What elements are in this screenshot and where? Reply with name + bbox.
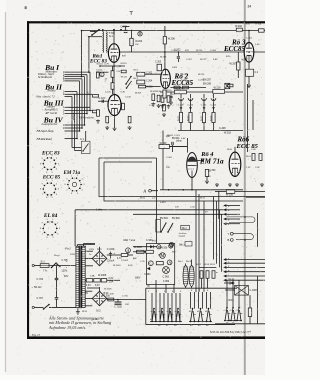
- electrolytic cup C.210: [188, 98, 193, 101]
- resistor column C.211: [203, 94, 205, 98]
- resistor W.964: [137, 250, 145, 253]
- wire top horizontal y52: [120, 51, 265, 53]
- svg-text:W.202: W.202: [235, 25, 243, 28]
- wire grid Ro2: [145, 73, 161, 75]
- resistor right lower: [248, 308, 251, 317]
- svg-text:W.215: W.215: [178, 116, 180, 121]
- svg-text:J: J: [90, 244, 91, 246]
- capacitor C.304 boxed: [137, 80, 145, 84]
- page gutter gray line: [244, 0, 246, 375]
- svg-text:C.208: C.208: [219, 127, 226, 130]
- vertical right x257.5 lower: [257, 276, 259, 324]
- cable loop 1: [227, 217, 256, 223]
- wire Ro4 bottom: [191, 178, 193, 190]
- svg-text:C.95: C.95: [140, 261, 145, 263]
- ground under W.106: [105, 126, 109, 130]
- frame border top: [27, 21, 265, 23]
- diode arrow col 3: [203, 107, 206, 110]
- mains lower switch: [44, 305, 50, 310]
- svg-text:A: A: [167, 260, 171, 265]
- margin speckle noise: [9, 0, 263, 374]
- svg-text:C.30: C.30: [149, 105, 154, 107]
- switch bank 2: [189, 308, 196, 322]
- svg-text:C.1: C.1: [80, 137, 85, 141]
- schematic interior tint: [29, 23, 265, 336]
- svg-text:1,9A: 1,9A: [109, 280, 114, 283]
- svg-text:24V: 24V: [166, 167, 170, 169]
- wire vertical x156.5: [156, 158, 158, 244]
- switch box outline left: [145, 288, 147, 324]
- wire Ro1 grid left: [96, 71, 108, 73]
- wire Ro6 top: [234, 147, 236, 152]
- svg-text:Ptr.I: Ptr.I: [64, 247, 71, 251]
- switch contact BV.1: [126, 77, 131, 85]
- resistor column C.210: [190, 94, 192, 98]
- lower bus wire 4: [223, 270, 226, 273]
- switch lever 2: [168, 223, 173, 232]
- switch bank 3: [224, 307, 231, 321]
- svg-text:W.111: W.111: [121, 77, 128, 79]
- wire bottom right y323.8: [215, 323, 265, 325]
- svg-text:BV.503: BV.503: [160, 217, 168, 220]
- svg-text:A: A: [143, 190, 147, 194]
- svg-text:120mA: 120mA: [107, 260, 115, 263]
- svg-text:W.30: W.30: [156, 91, 162, 93]
- wire Bu II pin1 to bus: [68, 91, 77, 93]
- resistor W.204: [130, 38, 133, 45]
- bus wire vertical x74.5 long: [74, 94, 76, 150]
- resistor W.207: [237, 62, 240, 70]
- tube Ro4 EM71: [187, 153, 198, 178]
- wire primary bottom: [77, 308, 79, 310]
- svg-text:W.1004: W.1004: [134, 247, 143, 249]
- svg-text:12V: 12V: [175, 207, 179, 209]
- page left edge line: [5, 12, 7, 372]
- svg-text:m: m: [216, 272, 218, 274]
- verticals above banks: [151, 293, 153, 321]
- heater resistor chain 3: [101, 279, 107, 282]
- wire bridge1 right: [107, 254, 121, 256]
- diode arrow col 1: [180, 107, 183, 110]
- bus wire vertical x77: [76, 92, 78, 139]
- node B circled: [169, 242, 173, 247]
- svg-text:NF-Verstärker: NF-Verstärker: [78, 117, 95, 120]
- resistor W.211: [174, 86, 180, 89]
- svg-text:b2: b2: [197, 311, 199, 313]
- tube socket ECC 85: [40, 180, 60, 199]
- svg-text:FB-Start-Stop: FB-Start-Stop: [36, 129, 54, 133]
- svg-text:20V: 20V: [64, 275, 69, 278]
- capacitor C.707: [55, 298, 59, 299]
- svg-text:62V: 62V: [185, 50, 189, 52]
- resistor right edge: [259, 154, 262, 161]
- boxed EM-element: [225, 83, 230, 88]
- svg-text:Gl.2: Gl.2: [96, 309, 101, 313]
- node C circled: [100, 72, 104, 77]
- wire vertical x81.5 from top: [81, 31, 83, 77]
- connector Bu IV pins: [65, 124, 69, 126]
- wire y66 to W.102: [112, 66, 114, 71]
- svg-text:C.50: C.50: [190, 207, 195, 209]
- svg-text:C.201: C.201: [246, 38, 253, 40]
- diode at Ro4: [201, 159, 204, 162]
- resistor W.305: [152, 94, 155, 101]
- lower bus wire 1: [223, 258, 226, 261]
- svg-text:6,3V: 6,3V: [95, 285, 100, 287]
- wire FB-Ruecklauf: [68, 138, 77, 140]
- wire C.101: [98, 100, 108, 102]
- svg-text:1,6V: 1,6V: [255, 44, 260, 46]
- resistor W.708: [108, 298, 114, 301]
- svg-text:W.105: W.105: [226, 194, 234, 197]
- switch C.1: [81, 141, 90, 153]
- relay contact box right: [235, 286, 249, 296]
- component at right edge: [259, 29, 265, 32]
- wire Gl2x: [224, 282, 235, 284]
- wire Bu I pin4 to bus: [68, 78, 82, 80]
- resistor W.306: [157, 95, 160, 102]
- box Mo II at mid right: [156, 220, 161, 233]
- wire bridge2 top: [99, 287, 101, 291]
- relay coil 1: [183, 266, 188, 287]
- svg-text:Mo.I: Mo.I: [182, 227, 187, 230]
- svg-text:EM.208: EM.208: [203, 84, 212, 86]
- wires relay coils: [185, 263, 187, 265]
- svg-text:Rel.II: Rel.II: [186, 261, 191, 263]
- resistor W.202: [236, 28, 242, 31]
- resistor W.108: [128, 116, 131, 123]
- wire W.207: [237, 52, 239, 62]
- motor circle X: [163, 267, 170, 274]
- bus wire y189.8: [160, 189, 243, 191]
- svg-text:0,6V: 0,6V: [181, 138, 186, 140]
- capacitor C.101: [102, 100, 103, 103]
- fuse Si.1: [40, 264, 49, 268]
- connector Bu I pins: [65, 71, 69, 73]
- wire Ro2 anode right: [170, 87, 206, 89]
- node B circled in box 2: [169, 244, 173, 248]
- resistor W.503: [159, 145, 169, 149]
- wire y251.8: [133, 251, 146, 253]
- svg-text:W.223: W.223: [198, 74, 205, 76]
- bus wire vertical x82: [81, 79, 83, 128]
- svg-text:W.217: W.217: [201, 116, 203, 121]
- lower bus wire 3: [223, 266, 226, 269]
- svg-text:C.204: C.204: [210, 50, 217, 52]
- resistor W.106: [106, 116, 109, 123]
- capacitor C.303: [157, 64, 162, 71]
- svg-text:W.1005: W.1005: [98, 274, 107, 277]
- svg-text:RF Gerät: RF Gerät: [45, 111, 58, 115]
- svg-text:W.1003: W.1003: [113, 265, 121, 267]
- svg-text:BV.2: BV.2: [134, 78, 139, 80]
- resistor W.209b left: [163, 90, 166, 98]
- svg-text:W.218: W.218: [224, 132, 232, 135]
- wire Bu I pin3 to bus: [68, 76, 85, 78]
- tube socket ECC 83: [40, 155, 60, 174]
- tube Ro1 upper triode: [108, 44, 119, 63]
- diode pair 1: [150, 245, 153, 248]
- junction dots bank base: [152, 321, 153, 322]
- resistor W.212: [183, 86, 189, 89]
- terminal mains circle: [32, 264, 34, 266]
- svg-text:BV.9: BV.9: [152, 241, 157, 243]
- svg-text:EM.207: EM.207: [203, 80, 212, 82]
- resistor W.101a: [97, 72, 100, 78]
- wire to switch C.1: [85, 131, 87, 141]
- svg-text:E.704: E.704: [256, 24, 262, 26]
- svg-text:W.1006: W.1006: [104, 289, 112, 291]
- wire vertical x88.9 from top: [88, 37, 90, 72]
- switch bank 2 base: [189, 320, 212, 322]
- transformer top wires: [76, 245, 78, 247]
- svg-text:180V: 180V: [135, 278, 141, 280]
- resistor W.214 on bus: [175, 90, 187, 94]
- wire mains top: [34, 265, 40, 267]
- svg-text:(Mo.): (Mo.): [179, 245, 185, 247]
- wire Bu IV pin1: [68, 124, 85, 126]
- resistor W.209: [161, 96, 164, 103]
- wire Netz pin to bus: [68, 96, 72, 98]
- svg-text:C.954: C.954: [144, 274, 151, 276]
- svg-text:W.101: W.101: [97, 64, 104, 66]
- svg-text:c2: c2: [230, 310, 232, 312]
- svg-text:C.203: C.203: [171, 50, 178, 52]
- wire W.204 down: [131, 46, 133, 52]
- wire Bu I pin1 to bus: [68, 71, 90, 73]
- wire Bu II pin2 to bus: [68, 93, 92, 95]
- bus wire y214.3: [133, 213, 224, 215]
- tube Ro2: [161, 69, 171, 88]
- frame border bottom: [27, 336, 265, 339]
- bus wire vertical x72 long: [71, 97, 73, 148]
- grounds above bus right: [215, 183, 219, 187]
- stray mark top left: [25, 6, 27, 9]
- relay coil 2: [189, 266, 194, 287]
- capacitor 2uF: [172, 142, 173, 145]
- wires transformer taps: [85, 250, 93, 252]
- wire bus y92: [160, 91, 243, 93]
- resistor W.1002: [121, 254, 128, 257]
- node B circled in box: [157, 245, 161, 249]
- svg-text:C.303: C.303: [155, 62, 162, 64]
- svg-text:85V: 85V: [122, 56, 126, 58]
- wire Bu IV pin2: [68, 127, 82, 129]
- resistor W.107: [121, 70, 126, 73]
- svg-text:C.1007: C.1007: [250, 289, 259, 292]
- connector Bu III pins: [65, 106, 69, 108]
- wires resistor cluster: [199, 266, 216, 268]
- wire corner x99: [99, 158, 265, 197]
- electrolytic cup C.212: [211, 98, 216, 101]
- box Mo I: [181, 225, 190, 229]
- svg-text:W.97: W.97: [196, 264, 202, 266]
- terminal arrow 1: [223, 204, 226, 207]
- svg-text:W.204: W.204: [135, 40, 143, 43]
- svg-text:W.208: W.208: [168, 38, 176, 41]
- svg-text:Lautsprecher: Lautsprecher: [41, 122, 59, 126]
- wire Ro4 grid: [169, 146, 186, 148]
- capacitor C.103: [122, 103, 125, 110]
- capacitor C.704: [124, 30, 128, 33]
- diode Gl.2x: [230, 281, 234, 285]
- tube Ro3: [244, 43, 254, 63]
- svg-text:1,4V: 1,4V: [225, 50, 230, 52]
- switch box outline top: [146, 287, 237, 289]
- wire Ro3 anode: [248, 31, 250, 43]
- svg-text:W.52: W.52: [200, 198, 206, 200]
- tube socket EL 84: [40, 219, 61, 239]
- bus wire vertical x87: [86, 75, 88, 114]
- capacitor C.302 boxed: [137, 72, 145, 76]
- resistor W.105: [226, 190, 235, 194]
- svg-text:C.501: C.501: [174, 135, 181, 137]
- resistor W.103: [111, 83, 114, 90]
- wire Bu III pin3: [68, 113, 87, 115]
- svg-text:C.215: C.215: [181, 80, 188, 82]
- tube socket EM 71a: [65, 175, 86, 195]
- svg-text:Si.1: Si.1: [41, 261, 46, 264]
- svg-text:+: +: [113, 251, 115, 255]
- svg-text:W.20: W.20: [167, 90, 173, 92]
- svg-text:Desgl.: Desgl.: [53, 255, 60, 257]
- svg-text:W.217: W.217: [200, 59, 207, 61]
- svg-text:BV.506: BV.506: [160, 248, 168, 250]
- svg-text:B.30: B.30: [128, 265, 133, 267]
- vertical right x257.5: [257, 213, 259, 247]
- svg-text:W.98: W.98: [204, 264, 210, 266]
- switch contact BV.2: [127, 81, 132, 88]
- terminal arrow 4: [223, 218, 226, 221]
- svg-text:6.95.02 mit EM 84 (1961) 24 17: 6.95.02 mit EM 84 (1961) 24 17+: [210, 330, 251, 334]
- svg-text:W.218: W.218: [211, 116, 213, 121]
- svg-text:85V: 85V: [246, 24, 250, 26]
- resistor W.302: [139, 85, 146, 88]
- resistor W.210: [167, 96, 170, 103]
- bridge rectifier Gl.2: [92, 291, 107, 306]
- wire between triodes: [113, 62, 115, 94]
- capacitor C.205 left: [169, 96, 172, 97]
- svg-text:1,2V: 1,2V: [246, 167, 251, 169]
- wire bus y130.5: [178, 130, 243, 132]
- svg-text:E.1: E.1: [109, 35, 113, 38]
- node A circled psu: [126, 248, 131, 253]
- svg-text:Rel.I: Rel.I: [178, 261, 183, 263]
- capacitor C.206 boxed: [246, 69, 254, 76]
- svg-text:EL 84: EL 84: [43, 213, 58, 219]
- bus wire y209.8: [75, 209, 223, 211]
- svg-text:7 A: 7 A: [43, 269, 47, 273]
- svg-text:Fig. 13: Fig. 13: [31, 334, 41, 337]
- svg-text:24V: 24V: [125, 304, 129, 306]
- wire corner x104: [104, 162, 243, 201]
- svg-text:C.962: C.962: [163, 276, 170, 279]
- bus wire vertical x90: [89, 72, 91, 110]
- svg-text:c3: c3: [236, 310, 238, 312]
- switch bank 1: [151, 308, 158, 322]
- motor circle M: [160, 253, 166, 260]
- lower bus wire 5: [223, 275, 226, 278]
- wire top horizontal y30.5: [82, 30, 266, 32]
- ground under Ro1b: [113, 127, 117, 131]
- stray mark top center: [130, 12, 133, 15]
- junction y52 x249: [248, 51, 250, 53]
- resistor W.307: [163, 104, 166, 111]
- switch bank 1 base: [150, 320, 182, 322]
- wire Bu III pin1: [68, 106, 90, 108]
- grounds under Ro2: [161, 105, 165, 109]
- svg-text:Y: Y: [228, 232, 230, 236]
- antenna switch: [92, 30, 99, 35]
- terminal arrow 5: [223, 222, 226, 225]
- svg-text:B: B: [228, 238, 230, 242]
- svg-text:W.214: W.214: [176, 87, 184, 90]
- resistor W.969: [156, 262, 163, 265]
- transformer primary winding: [76, 246, 79, 307]
- svg-text:100V: 100V: [172, 67, 178, 69]
- resistor W.504: [205, 169, 208, 176]
- resistor W.104: [97, 110, 100, 117]
- bus wire vertical x79.5: [79, 81, 81, 131]
- wire through W.105: [215, 190, 226, 192]
- frame border left: [27, 21, 29, 339]
- svg-text:C.62: C.62: [255, 167, 260, 169]
- wire x163 down: [162, 131, 164, 145]
- resistor right of Ro6: [252, 154, 255, 161]
- vertical x218.8 right block: [218, 191, 220, 219]
- lower bus wire 6: [223, 279, 226, 282]
- transformer secondary winding: [82, 246, 85, 307]
- diode arrow col 2: [189, 107, 192, 110]
- diode in box: [147, 267, 150, 270]
- resistor cluster r3: [212, 271, 215, 279]
- svg-text:EM 71a: EM 71a: [199, 158, 224, 166]
- wire vertical x253: [252, 100, 254, 130]
- svg-text:W.501: W.501: [167, 135, 174, 137]
- bus wire vertical x84.5: [84, 77, 86, 125]
- switch bank 3 base: [224, 320, 242, 322]
- svg-text:W.4x: W.4x: [228, 299, 234, 302]
- svg-text:C.60: C.60: [251, 149, 256, 151]
- svg-text:1M: 1M: [135, 44, 138, 46]
- svg-text:62V: 62V: [226, 56, 230, 58]
- junction cluster: [120, 29, 122, 31]
- svg-text:C.1002: C.1002: [121, 260, 129, 262]
- resistor W.102: [111, 71, 114, 78]
- heater resistor chain 1: [86, 279, 93, 282]
- mains switch: [52, 263, 57, 268]
- svg-text:Mik +ana: Mik +ana: [122, 238, 136, 242]
- svg-text:C.31: C.31: [161, 105, 166, 107]
- svg-text:A: A: [126, 248, 130, 253]
- verticals above bank2: [190, 292, 192, 309]
- electrolytic cup C.209: [179, 98, 184, 101]
- wire primary top: [74, 210, 76, 246]
- heater resistor chain 2: [94, 279, 101, 282]
- svg-text:C.216: C.216: [198, 80, 205, 82]
- svg-text:0,3V: 0,3V: [121, 92, 126, 94]
- connector Bu II pins: [65, 91, 69, 93]
- switch box outline bottom: [146, 324, 235, 326]
- svg-text:Phono: Phono: [47, 88, 56, 92]
- terminal arrow 3: [223, 213, 226, 216]
- wire A right: [128, 254, 133, 256]
- lower bus wire 2: [223, 262, 226, 265]
- resistor W.208: [163, 36, 166, 44]
- svg-text:W.220: W.220: [196, 50, 203, 52]
- wire bridge2 right: [107, 299, 146, 301]
- wire T.702 top: [102, 30, 104, 32]
